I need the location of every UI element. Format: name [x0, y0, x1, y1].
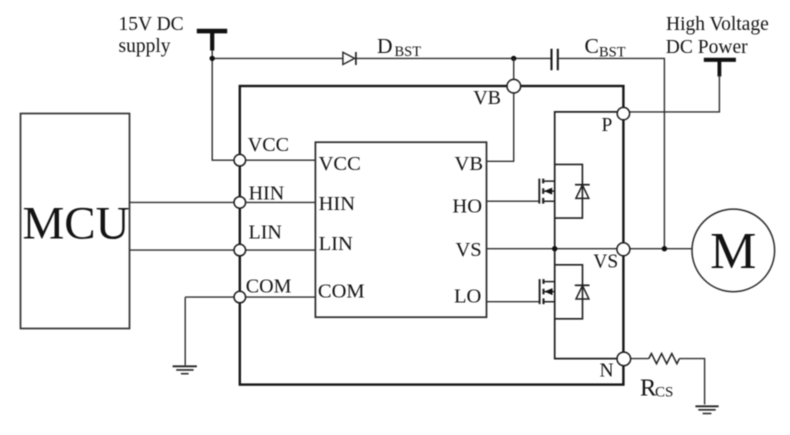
gate driver IC U1: [315, 142, 486, 317]
label VCC (bus terminal): [248, 134, 289, 156]
svg-text:supply: supply: [119, 36, 171, 57]
node P: [617, 107, 629, 119]
junction dot Q1 source / Q2 drain on VS row: [552, 246, 557, 251]
svg-text:COM: COM: [318, 281, 365, 303]
capacitor C_BST: [552, 49, 558, 71]
label 15V DC supply: [119, 14, 184, 57]
label VB: [473, 87, 501, 109]
node LIN terminal circle: [234, 244, 246, 256]
MCU box: [21, 114, 130, 329]
svg-text:VCC: VCC: [319, 153, 361, 175]
label R_CS: [640, 374, 673, 401]
junction dot C_BST leg on VS row: [662, 246, 667, 251]
wire dot to VB node: [513, 58, 515, 86]
svg-text:15V DC: 15V DC: [119, 14, 184, 35]
resistor R_CS: [649, 354, 680, 364]
svg-text:COM: COM: [246, 275, 292, 297]
node N: [617, 352, 631, 366]
transistor Q1 (high side MOSFET): [539, 112, 623, 249]
node COM terminal circle: [234, 291, 246, 303]
body diode of Q2: [555, 265, 590, 319]
svg-text:M: M: [710, 223, 756, 280]
wire VCC row to IC: [240, 159, 316, 161]
15V DC supply symbol: [197, 31, 227, 50]
svg-text:HIN: HIN: [319, 193, 356, 215]
svg-text:HIN: HIN: [249, 183, 285, 205]
pin label VCC (inside U1): [319, 153, 361, 175]
label COM (bus terminal): [246, 275, 292, 297]
label P: [602, 115, 613, 136]
label High Voltage DC Power: [666, 14, 769, 58]
svg-text:VS: VS: [455, 239, 481, 261]
pin label LO (inside U1): [454, 286, 481, 308]
wire COM row: [185, 296, 315, 298]
svg-text:D: D: [377, 34, 393, 58]
svg-text:LIN: LIN: [249, 222, 282, 244]
wire diode cathode to VB dot: [356, 57, 552, 59]
transistor Q2 (low side MOSFET): [540, 249, 624, 359]
wire R_CS to ground: [679, 359, 704, 405]
node VS: [617, 243, 630, 256]
svg-text:N: N: [600, 360, 614, 381]
svg-text:HO: HO: [452, 196, 482, 218]
svg-text:C: C: [585, 34, 599, 58]
node HIN terminal circle: [234, 197, 246, 209]
pin label LIN (inside U1): [319, 233, 353, 255]
wire COM to ground: [184, 297, 186, 365]
pin label VB (inside U1): [455, 153, 483, 175]
svg-text:P: P: [602, 115, 613, 136]
label MCU: [23, 198, 130, 250]
body diode of Q1: [555, 164, 590, 218]
motor M: [692, 209, 775, 292]
svg-text:VB: VB: [473, 87, 501, 109]
label VS: [593, 252, 618, 273]
wire capacitor to right leg down to VS junction: [558, 58, 665, 248]
wire 15V supply drop to VCC corner: [212, 50, 240, 160]
pin label HIN (inside U1): [319, 193, 356, 215]
wire HO to high-side gate: [487, 200, 540, 202]
svg-text:LO: LO: [454, 286, 481, 308]
pin label COM (inside U1): [318, 281, 365, 303]
svg-text:LIN: LIN: [319, 233, 353, 255]
svg-text:High Voltage: High Voltage: [666, 14, 769, 35]
wire VB pin to VB node: [487, 86, 514, 161]
pin label VS (inside U1): [455, 239, 481, 261]
ground (power): [695, 406, 718, 413]
wire LO to low-side gate: [487, 301, 540, 303]
thick power loop wire (VCC bus / VB rail / P-VS-N leg / bottom rail): [240, 86, 624, 385]
label C_BST: [585, 34, 626, 60]
ground (logic): [173, 366, 197, 373]
svg-text:MCU: MCU: [23, 198, 130, 250]
svg-text:DC Power: DC Power: [666, 37, 748, 58]
label LIN (bus terminal): [249, 222, 282, 244]
wire MCU LIN row: [130, 249, 316, 251]
label N: [600, 360, 614, 381]
svg-text:CS: CS: [655, 385, 673, 401]
diode D_BST: [343, 52, 356, 65]
wire MCU HIN row: [130, 201, 316, 203]
svg-text:VB: VB: [455, 153, 483, 175]
pin label HO (inside U1): [452, 196, 482, 218]
wire N to R_CS: [624, 358, 649, 360]
svg-text:VS: VS: [593, 252, 618, 273]
svg-text:VCC: VCC: [248, 134, 289, 156]
svg-text:BST: BST: [395, 44, 422, 60]
junction dot at 15V rail: [210, 56, 215, 61]
wire top rail from 15V dot to diode: [212, 57, 343, 59]
wire VS row (IC to motor): [487, 248, 693, 250]
wire HV supply drop to P node: [623, 75, 719, 112]
junction dot above VB: [511, 56, 516, 61]
label HIN (bus terminal): [249, 183, 285, 205]
label D_BST: [377, 34, 421, 60]
node VCC terminal circle: [234, 154, 246, 166]
High Voltage DC Power supply symbol: [704, 60, 736, 77]
node VB: [507, 79, 521, 93]
